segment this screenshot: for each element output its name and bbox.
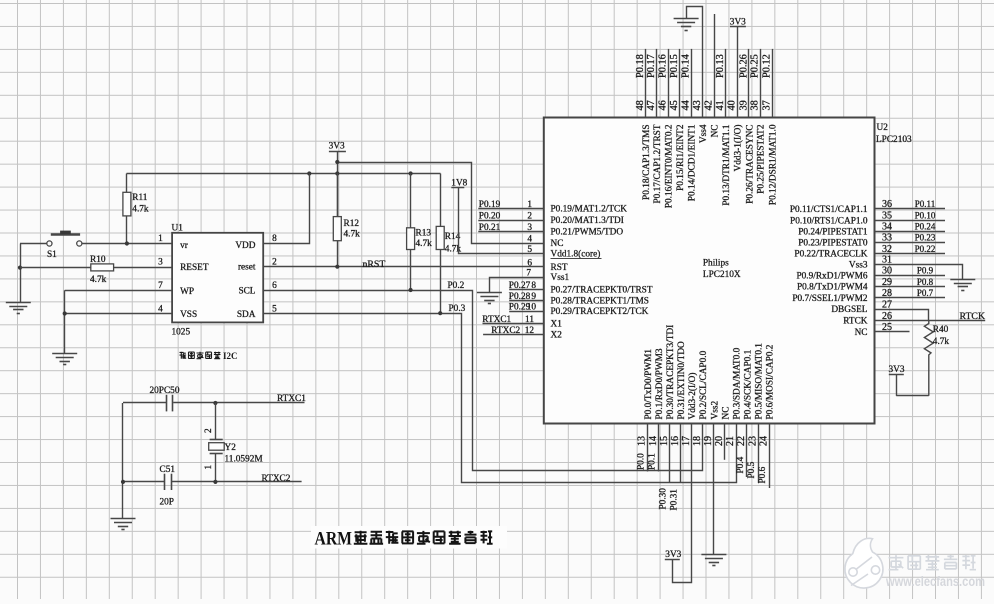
svg-text:45: 45 (669, 100, 680, 110)
svg-text:VSS: VSS (180, 310, 197, 320)
svg-text:P0.23: P0.23 (915, 233, 936, 243)
svg-text:4.7k: 4.7k (132, 205, 149, 215)
svg-text:48: 48 (635, 100, 646, 110)
svg-text:P0.27/TRACEPKT0/TRST: P0.27/TRACEPKT0/TRST (551, 285, 653, 295)
svg-text:P0.22/TRACECLK: P0.22/TRACECLK (794, 250, 867, 260)
U2 bottom pin names (rotated) (644, 325, 776, 420)
svg-text:3: 3 (527, 223, 532, 233)
U2 pin 42 NC stub (714, 14, 716, 118)
svg-text:P0.31/EXTIN0/TDO: P0.31/EXTIN0/TDO (677, 341, 687, 420)
wire U2 Vdd3-2 (pin 17) to 3V3 (673, 424, 692, 583)
svg-text:RST: RST (551, 263, 568, 273)
svg-text:20PC50: 20PC50 (150, 386, 180, 396)
svg-text:8: 8 (272, 234, 277, 244)
svg-text:RTXC1: RTXC1 (277, 394, 306, 404)
svg-text:1: 1 (204, 465, 214, 470)
svg-text:Vss4: Vss4 (699, 124, 709, 143)
svg-text:X2: X2 (551, 330, 563, 340)
svg-text:37: 37 (762, 100, 773, 110)
U2 pin 25 NC stub (875, 331, 910, 333)
U2 right pin names (790, 205, 868, 338)
svg-text:NC: NC (551, 239, 564, 249)
power symbol 3V3 (U2 Vdd3-1, pin 40) (730, 18, 746, 118)
ground (U2 Vss3) (950, 280, 975, 291)
svg-text:P0.3: P0.3 (449, 304, 466, 314)
svg-text:U2: U2 (877, 123, 889, 133)
svg-text:P0.31: P0.31 (670, 489, 680, 511)
svg-text:7: 7 (526, 269, 531, 279)
title background strip (311, 526, 507, 549)
svg-text:P0.26: P0.26 (738, 54, 749, 78)
svg-text:P0.2/SCL/CAP0.0: P0.2/SCL/CAP0.0 (699, 350, 709, 419)
ground (U1 VSS) (52, 354, 77, 365)
resistor R40 4.7k (zigzag) (924, 321, 949, 396)
svg-text:10: 10 (527, 303, 537, 313)
svg-text:P0.28/TRACEPKT1/TMS: P0.28/TRACEPKT1/TMS (551, 296, 649, 306)
wire U2 DBGSEL (pin 27) to RTCK row (875, 310, 929, 321)
capacitor C50 20P (123, 386, 215, 412)
svg-text:33: 33 (882, 233, 892, 244)
svg-text:www.elecfans.com: www.elecfans.com (885, 574, 985, 589)
svg-text:41: 41 (715, 100, 726, 110)
svg-text:Vdd3-2(I/O): Vdd3-2(I/O) (687, 373, 698, 420)
svg-text:RESET: RESET (180, 263, 209, 273)
switch S1 (47, 231, 82, 260)
watermark url www.elecfans.com (885, 574, 985, 589)
svg-text:P0.17: P0.17 (646, 54, 657, 78)
svg-text:NC: NC (711, 125, 721, 138)
svg-text:17: 17 (681, 436, 692, 446)
svg-text:36: 36 (882, 199, 892, 210)
U1 pin labels (158, 234, 277, 320)
svg-text:P0.18/CAP1.3/TMS: P0.18/CAP1.3/TMS (642, 125, 652, 200)
U2 pin 20 NC stub (724, 424, 726, 460)
svg-text:42: 42 (704, 100, 715, 110)
svg-text:21: 21 (725, 436, 736, 446)
U2 pins 15,16 stubs nets P0.30 P0.31 (659, 424, 681, 511)
svg-text:P0.4/SCK/CAP0.1: P0.4/SCK/CAP0.1 (743, 349, 753, 419)
svg-text:P0.27: P0.27 (509, 281, 531, 291)
svg-text:5: 5 (527, 245, 532, 255)
svg-text:2: 2 (527, 212, 532, 222)
svg-text:23: 23 (747, 436, 758, 446)
title text: ARM minimal system and storage module (315, 530, 493, 550)
svg-text:4: 4 (158, 304, 163, 314)
svg-text:P0.5/MISO/MAT0.1: P0.5/MISO/MAT0.1 (755, 343, 765, 420)
ground (U2 Vss1) (477, 293, 502, 304)
wire RTXC2 net (213, 474, 301, 484)
U2 pins 8-10 stubs, nets P0.27 P0.28 P0.29 (509, 281, 544, 313)
U2 pins 1-3 stubs, nets P0.19 P0.20 P0.21 (478, 200, 544, 233)
ground (U2 Vss4, top) (674, 19, 699, 31)
svg-text:P0.16: P0.16 (658, 54, 669, 78)
svg-text:P0.12: P0.12 (762, 54, 773, 78)
wire nRST (U1 reset to U2 RST) (263, 259, 544, 270)
svg-text:RTXC2: RTXC2 (262, 474, 291, 484)
svg-text:P0.9: P0.9 (917, 266, 934, 276)
U2 right pin stubs 36-25 with net labels (875, 199, 946, 333)
svg-text:11: 11 (525, 315, 534, 325)
svg-text:43: 43 (692, 100, 703, 110)
svg-text:39: 39 (738, 100, 749, 110)
svg-text:3V3: 3V3 (329, 142, 345, 152)
ground (U2 Vss2) (701, 555, 726, 566)
wire S1 to U1 pin 1 (82, 241, 172, 245)
power symbol 3V3 (main rail) (329, 142, 346, 217)
wire 3V3 distribution rail (127, 171, 441, 175)
svg-text:1: 1 (158, 234, 163, 244)
svg-text:16: 16 (670, 436, 681, 446)
wire crystal caps to ground (121, 403, 125, 518)
svg-text:P0.21: P0.21 (479, 223, 501, 233)
svg-text:WP: WP (180, 287, 194, 297)
svg-text:P0.14: P0.14 (681, 54, 692, 78)
svg-text:P0.14/DCD1/EINT1: P0.14/DCD1/EINT1 (688, 124, 698, 201)
svg-text:8: 8 (531, 281, 536, 291)
svg-text:4.7k: 4.7k (90, 275, 107, 285)
svg-text:12: 12 (525, 326, 535, 336)
svg-text:I2C: I2C (223, 351, 238, 361)
svg-text:38: 38 (750, 100, 761, 110)
IC U2 LPC2103 (544, 118, 912, 424)
svg-text:6: 6 (527, 258, 532, 268)
svg-text:11.0592M: 11.0592M (225, 454, 263, 464)
svg-text:15: 15 (659, 436, 670, 446)
svg-text:27: 27 (882, 299, 892, 310)
svg-text:34: 34 (882, 222, 892, 233)
svg-text:9: 9 (531, 292, 536, 302)
resistor R10 4.7k (20, 255, 172, 285)
svg-text:U1: U1 (172, 224, 184, 234)
U2 bottom pin numbers 13-24 (637, 436, 770, 446)
svg-text:P0.1: P0.1 (648, 453, 658, 470)
resistor R13 4.7k (407, 174, 433, 291)
svg-text:35: 35 (882, 211, 892, 222)
svg-text:R12: R12 (344, 219, 360, 229)
svg-text:vr: vr (180, 241, 189, 251)
svg-text:40: 40 (727, 100, 738, 110)
wire U2 Vss3 (pin 31) to ground (875, 265, 963, 280)
svg-text:3V3: 3V3 (889, 365, 905, 375)
svg-text:P0.20/MAT1.3/TDI: P0.20/MAT1.3/TDI (551, 216, 624, 226)
resistor R14 4.7k (436, 174, 461, 314)
svg-text:P0.5: P0.5 (747, 461, 757, 478)
svg-text:RTXC2: RTXC2 (491, 326, 520, 336)
svg-text:P0.19: P0.19 (479, 200, 501, 210)
svg-text:P0.6: P0.6 (758, 466, 768, 483)
svg-text:P0.12/DSR1/MAT1.0: P0.12/DSR1/MAT1.0 (769, 124, 779, 205)
svg-text:Vdd3-1(I/O): Vdd3-1(I/O) (733, 125, 744, 172)
svg-text:3: 3 (158, 257, 163, 267)
power symbol 1V8 and wire to U2 pin 5 (451, 178, 543, 255)
svg-text:3V3: 3V3 (665, 550, 681, 560)
svg-text:30: 30 (882, 266, 892, 277)
svg-text:S1: S1 (47, 250, 57, 260)
U2 pin 6 number (527, 258, 532, 268)
wire RTXC1 net (213, 394, 306, 405)
IC U1 24C025 (reset & I2C) (172, 224, 264, 338)
svg-text:P0.0/TxD0/PWM1: P0.0/TxD0/PWM1 (644, 349, 654, 420)
svg-text:6: 6 (272, 281, 277, 291)
svg-text:P0.28: P0.28 (509, 292, 531, 302)
wire P0.2 net (U1 SCL to U2 pin 18) (264, 281, 703, 471)
svg-text:R11: R11 (132, 193, 148, 203)
U2 pin 4 number (527, 235, 532, 245)
svg-text:X1: X1 (551, 319, 563, 329)
svg-text:RTCK: RTCK (843, 317, 868, 327)
svg-text:Vss3: Vss3 (849, 261, 868, 271)
svg-text:P0.25/PIPESTAT2: P0.25/PIPESTAT2 (757, 124, 767, 194)
svg-text:P0.4: P0.4 (736, 456, 746, 473)
svg-text:46: 46 (658, 100, 669, 110)
svg-text:1: 1 (527, 200, 532, 210)
svg-text:20P: 20P (160, 498, 174, 508)
svg-text:4.7k: 4.7k (933, 337, 950, 347)
svg-text:Y2: Y2 (225, 443, 237, 453)
svg-text:P0.13: P0.13 (715, 54, 726, 78)
svg-text:VDD: VDD (235, 241, 255, 251)
svg-text:P0.17/CAP1.2/TRST: P0.17/CAP1.2/TRST (653, 124, 663, 203)
svg-text:P0.15: P0.15 (669, 54, 680, 78)
svg-text:1025: 1025 (172, 328, 191, 338)
svg-text:4.7k: 4.7k (416, 239, 433, 249)
svg-text:Philips: Philips (703, 258, 729, 268)
svg-text:nRST: nRST (363, 259, 386, 270)
U2 pins 22,23,24 stubs nets P0.4 P0.5 P0.6 (736, 424, 770, 489)
U2 center label Philips LPC210X (703, 258, 741, 280)
svg-text:P0.8/TxD1/PWM4: P0.8/TxD1/PWM4 (797, 283, 868, 293)
svg-text:20: 20 (714, 436, 725, 446)
wire U2 Vss4 (pin 43) to top ground (687, 7, 703, 118)
svg-text:Vss1: Vss1 (551, 273, 570, 283)
svg-text:SDA: SDA (237, 310, 256, 320)
wire S1 to ground / R10 (18, 244, 47, 303)
crystal Y2 11.0592M (204, 403, 262, 482)
svg-text:P0.16/EINT0/MAT0.2: P0.16/EINT0/MAT0.2 (665, 124, 675, 208)
svg-text:NC: NC (721, 407, 731, 420)
svg-text:P0.22: P0.22 (915, 244, 936, 254)
svg-text:19: 19 (703, 436, 714, 446)
resistor R12 4.7k (333, 174, 360, 267)
svg-text:28: 28 (882, 288, 892, 299)
svg-text:reset: reset (238, 263, 256, 273)
svg-text:4.7k: 4.7k (344, 229, 361, 239)
svg-text:P0.1/RxD0/PWM3: P0.1/RxD0/PWM3 (655, 348, 665, 419)
svg-text:R13: R13 (416, 228, 432, 238)
U2 pins 11-12 stubs, nets RTXC1 RTXC2 (482, 315, 544, 336)
svg-text:R10: R10 (90, 255, 106, 265)
power symbol 3V3 (below R40) (889, 365, 929, 396)
svg-text:P0.10/RTS1/CAP1.0: P0.10/RTS1/CAP1.0 (790, 216, 868, 226)
U2 pins 13,14 stubs nets P0.0 P0.1 (637, 424, 659, 472)
watermark text dianzifashaoyou (889, 555, 976, 570)
svg-text:14: 14 (648, 436, 659, 446)
svg-text:2: 2 (204, 428, 214, 433)
svg-text:24: 24 (758, 436, 769, 446)
svg-text:LPC2103: LPC2103 (876, 135, 912, 145)
svg-text:P0.23/PIPESTAT0: P0.23/PIPESTAT0 (798, 239, 868, 249)
U2 top pin stubs 48-37 with numbers and nets (635, 49, 773, 118)
svg-text:P0.11/CTS1/CAP1.1: P0.11/CTS1/CAP1.1 (790, 205, 868, 215)
svg-text:P0.24: P0.24 (915, 222, 936, 232)
svg-text:P0.24/PIPESTAT1: P0.24/PIPESTAT1 (798, 227, 868, 237)
svg-text:P0.9/RxD1/PWM6: P0.9/RxD1/PWM6 (796, 271, 867, 281)
svg-text:P0.20: P0.20 (479, 212, 501, 222)
svg-text:44: 44 (681, 100, 692, 110)
svg-text:ARM: ARM (315, 530, 353, 550)
U2 top pin names (rotated) (642, 124, 779, 208)
svg-text:P0.18: P0.18 (635, 54, 646, 78)
wire 3V3 to U2 pin 4 (Vdd) (335, 160, 543, 244)
ground (S1) (6, 303, 31, 314)
wire P0.3 net (U1 SDA to U2 pin 21) (264, 304, 737, 483)
svg-text:22: 22 (736, 436, 747, 446)
svg-text:C51: C51 (160, 465, 176, 475)
svg-text:P0.7/SSEL1/PWM2: P0.7/SSEL1/PWM2 (792, 294, 868, 304)
svg-text:P0.30: P0.30 (659, 488, 669, 510)
svg-text:DBGSEL: DBGSEL (831, 305, 867, 315)
svg-text:LPC210X: LPC210X (703, 270, 741, 280)
svg-text:P0.15/RI1/EINT2: P0.15/RI1/EINT2 (676, 124, 686, 191)
svg-text:P0.10: P0.10 (915, 211, 936, 221)
svg-text:7: 7 (158, 281, 163, 291)
svg-text:Vss2: Vss2 (710, 401, 720, 420)
svg-text:P0.13/DTR1/MAT1.1: P0.13/DTR1/MAT1.1 (722, 124, 732, 205)
svg-text:P0.8: P0.8 (917, 277, 934, 287)
U2 left pin names (551, 205, 653, 341)
wire U1 WP/VSS to ground (63, 290, 173, 353)
svg-text:P0.3/SDA/MAT0.0: P0.3/SDA/MAT0.0 (732, 347, 742, 419)
wire U2 RTCK (pin 26) to RTCK label (875, 311, 986, 322)
svg-text:Vdd1.8(core): Vdd1.8(core) (551, 248, 601, 259)
U2 pin 7 stub to ground (490, 269, 544, 293)
watermark logo (elecfans) (845, 538, 883, 588)
svg-text:P0.29/TRACEPKT2/TCK: P0.29/TRACEPKT2/TCK (551, 307, 649, 317)
svg-text:SCL: SCL (238, 287, 255, 297)
svg-text:P0.0: P0.0 (637, 453, 647, 470)
capacitor C51 20P (123, 465, 216, 508)
svg-text:29: 29 (882, 277, 892, 288)
ground (crystal) (111, 519, 136, 530)
svg-text:P0.30/TRACEPKT3/TDI: P0.30/TRACEPKT3/TDI (666, 325, 676, 420)
svg-text:4: 4 (527, 235, 532, 245)
svg-text:P0.21/PWM5/TDO: P0.21/PWM5/TDO (551, 227, 624, 237)
U1 caption (reset circuit and I2C) (180, 351, 238, 361)
svg-text:P0.2: P0.2 (448, 281, 465, 291)
svg-text:P0.19/MAT1.2/TCK: P0.19/MAT1.2/TCK (551, 205, 628, 215)
svg-text:RTCK: RTCK (960, 311, 986, 322)
wire U1 VDD to 3V3 rail (264, 174, 310, 244)
svg-text:47: 47 (646, 100, 657, 110)
svg-text:P0.25: P0.25 (750, 54, 761, 78)
svg-text:13: 13 (637, 436, 648, 446)
svg-text:R40: R40 (933, 325, 949, 335)
svg-text:P0.7: P0.7 (917, 288, 934, 298)
resistor R11 4.7k (123, 174, 149, 244)
wire U2 Vss2 (pin 19) to ground (713, 424, 715, 555)
svg-text:P0.6/MOSI/CAP0.2: P0.6/MOSI/CAP0.2 (766, 344, 776, 419)
svg-text:RTXC1: RTXC1 (482, 315, 511, 325)
svg-text:32: 32 (882, 244, 892, 255)
svg-text:P0.11: P0.11 (915, 199, 935, 209)
svg-text:P0.26/TRACESYNC: P0.26/TRACESYNC (745, 125, 755, 204)
svg-text:18: 18 (692, 436, 703, 446)
power symbol 3V3 (U2 Vdd3-2) (665, 550, 682, 560)
svg-text:NC: NC (855, 328, 868, 338)
